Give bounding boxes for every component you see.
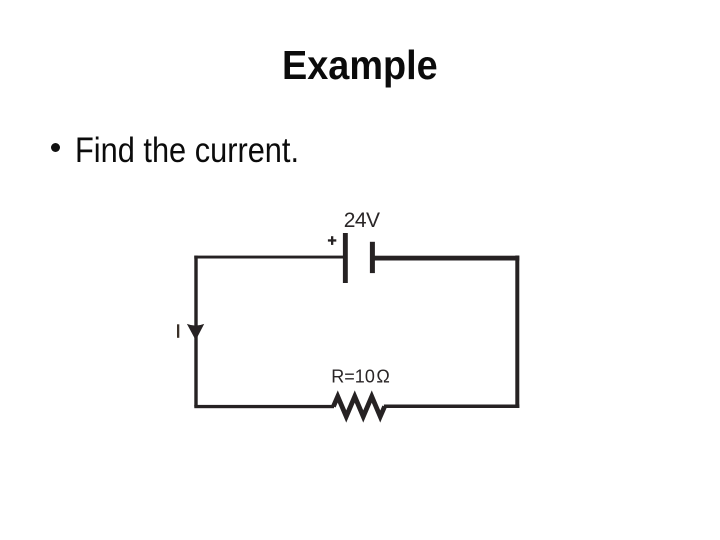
slide title "Example" bbox=[282, 45, 438, 86]
svg-text:24V: 24V bbox=[344, 209, 380, 232]
wire left vertical bbox=[194, 256, 197, 407]
battery left plate (+) bbox=[343, 233, 348, 283]
wire bottom-right segment bbox=[384, 405, 519, 409]
plus sign bbox=[328, 239, 336, 241]
wire bottom-left segment bbox=[194, 405, 334, 408]
wire right vertical bbox=[515, 256, 519, 409]
wire top-right segment bbox=[373, 256, 520, 261]
bullet marker bbox=[51, 143, 60, 152]
bullet text "Find the current." bbox=[75, 133, 299, 168]
label I bbox=[177, 324, 179, 338]
svg-text:R=10 Ω: R=10 Ω bbox=[331, 367, 390, 387]
battery right plate (-) bbox=[370, 242, 375, 273]
resistor R bbox=[333, 397, 384, 417]
current arrow I bbox=[187, 324, 204, 340]
wire top-left segment bbox=[194, 256, 343, 259]
